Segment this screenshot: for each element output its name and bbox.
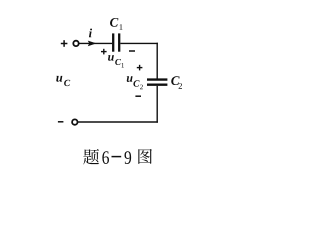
label uC1 letter u — [108, 55, 114, 61]
wire top left segment — [79, 42, 112, 44]
caption dash — [112, 156, 122, 158]
polarity plus of uC2 — [137, 65, 143, 71]
capacitor C1 plates — [113, 33, 119, 51]
label i — [89, 29, 92, 38]
label uC2 subscript 2 — [140, 85, 143, 90]
label C1 subscript 1 — [120, 24, 123, 30]
label uC subscript C — [64, 80, 70, 86]
caption digit 6 — [102, 151, 109, 164]
terminal node top-left — [73, 41, 78, 46]
wire top right segment — [120, 42, 157, 44]
wire right vertical lower — [156, 86, 158, 123]
caption chinese TI (problem) — [83, 149, 99, 165]
current arrow for i — [88, 41, 97, 47]
terminal node bottom-left — [72, 119, 77, 124]
wire bottom segment — [78, 121, 158, 123]
label uC1 subscript C — [115, 59, 121, 65]
capacitor C2 plates — [147, 80, 167, 85]
plus sign at left input terminal — [61, 40, 68, 47]
wire right vertical upper — [156, 43, 158, 79]
label C2 subscript 2 — [179, 83, 182, 89]
minus sign at left bottom terminal — [58, 121, 64, 123]
label uC1 subscript 1 — [122, 63, 124, 68]
label C2 letter C — [171, 76, 179, 85]
caption digit 9 — [124, 151, 131, 164]
caption chinese TU (figure) — [138, 149, 152, 164]
label uC letter u — [56, 76, 62, 82]
label C1 letter C — [110, 18, 118, 27]
label uC2 subscript C — [133, 80, 139, 86]
polarity plus of uC1 — [101, 49, 107, 55]
polarity minus of uC2 — [135, 95, 141, 97]
polarity minus of uC1 — [129, 50, 135, 52]
label uC2 letter u — [127, 76, 133, 82]
